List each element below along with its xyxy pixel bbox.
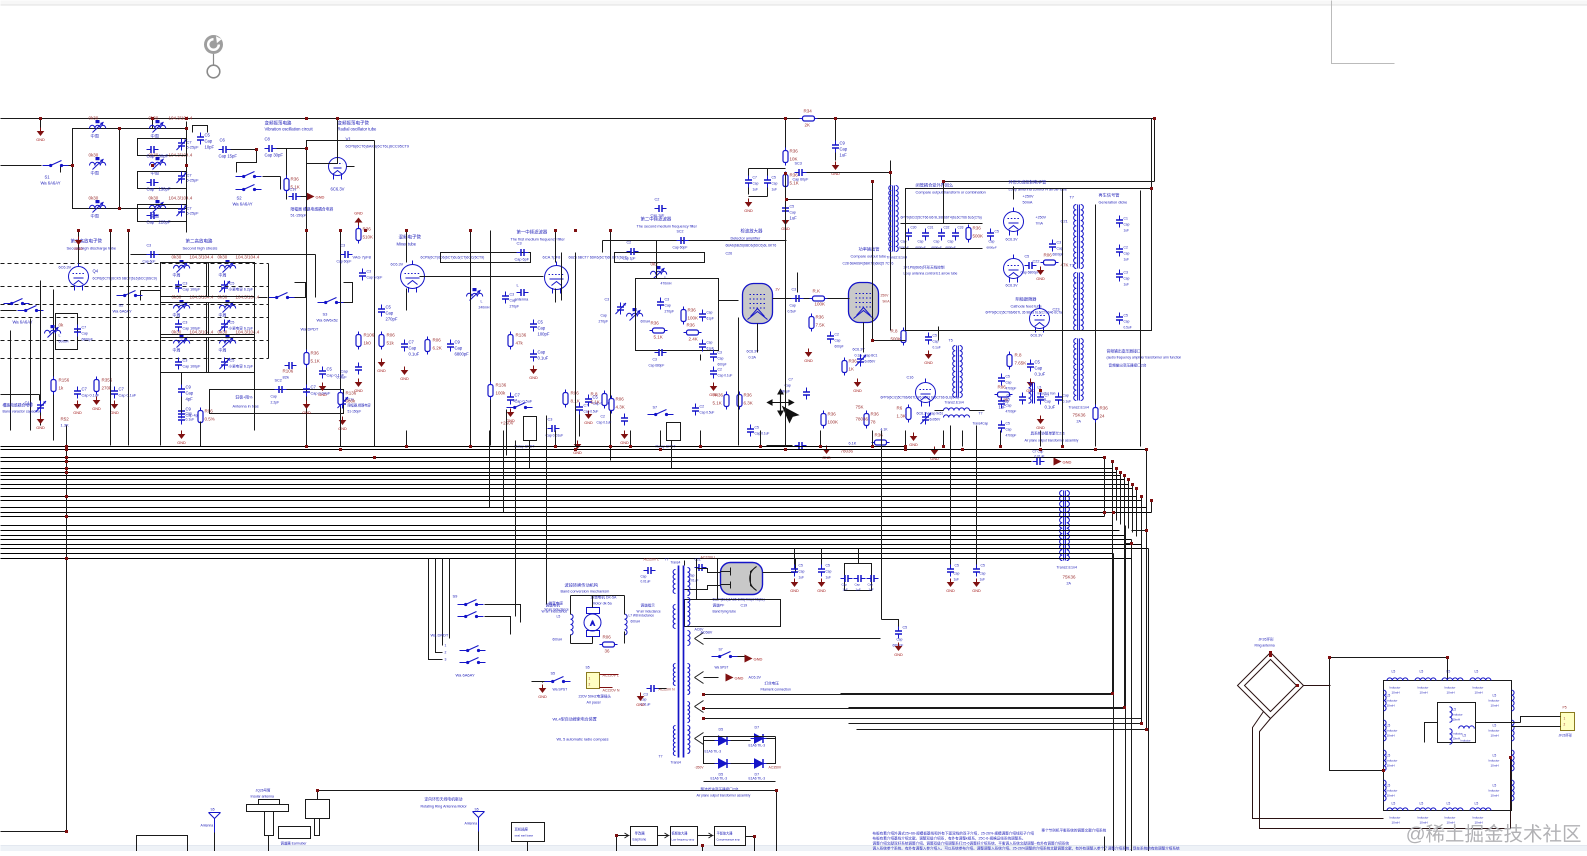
svg-text:GND: GND — [302, 411, 311, 415]
svg-text:100K: 100K — [828, 420, 839, 425]
svg-text:GND: GND — [1063, 460, 1072, 465]
svg-text:变频振荡电子管: 变频振荡电子管 — [338, 120, 370, 127]
junction — [405, 229, 408, 232]
ground — [745, 655, 763, 663]
svg-text:C2: C2 — [627, 241, 632, 245]
svg-text:104.3/104.4: 104.3/104.4 — [190, 255, 214, 260]
junction — [1145, 529, 1148, 532]
wire — [295, 283, 306, 298]
wire — [570, 635, 572, 644]
svg-text:AC6BV: AC6BV — [701, 631, 713, 635]
capacitor — [987, 229, 994, 241]
svg-text:GND: GND — [909, 443, 918, 447]
svg-text:GND: GND — [110, 411, 119, 415]
svg-text:51-150pF: 51-150pF — [348, 410, 362, 414]
svg-text:GND: GND — [1036, 277, 1045, 281]
adjustable inductor L9 — [651, 266, 667, 279]
svg-text:6C6.3V: 6C6.3V — [917, 412, 930, 416]
top toolbar strip — [1, 1, 1587, 5]
wire — [140, 291, 142, 301]
wire — [890, 161, 892, 173]
svg-text:Inductor: Inductor — [1390, 816, 1401, 820]
svg-text:GND: GND — [972, 589, 981, 593]
svg-text:Inductor: Inductor — [1418, 816, 1429, 820]
wire — [406, 289, 408, 311]
wire — [592, 637, 594, 644]
svg-text:GND: GND — [894, 653, 903, 657]
capacitor — [867, 575, 879, 582]
resistor — [995, 392, 1013, 397]
transformer T7 regen — [1074, 205, 1084, 269]
junction — [554, 229, 557, 232]
svg-text:WL 5 automatic radio compass: WL 5 automatic radio compass — [557, 738, 609, 742]
junction — [629, 445, 632, 448]
wire bus line 17 — [1, 530, 1120, 532]
svg-text:Cap: Cap — [409, 346, 417, 351]
svg-text:Cap: Cap — [271, 395, 277, 399]
svg-text:Cap 0.1uF: Cap 0.1uF — [82, 394, 100, 398]
svg-text:C7: C7 — [187, 206, 193, 211]
svg-text:10mH: 10mH — [1387, 794, 1395, 798]
svg-text:检波放大器: 检波放大器 — [741, 228, 764, 235]
svg-text:Cap: Cap — [855, 583, 861, 587]
svg-text:6800pF: 6800pF — [1053, 253, 1064, 257]
svg-text:S1: S1 — [45, 175, 51, 180]
wire heater feed — [849, 707, 1125, 709]
tube V4 first IF — [545, 262, 569, 294]
svg-text:Inductor: Inductor — [1453, 732, 1463, 736]
junction — [961, 448, 964, 451]
resistor — [966, 225, 971, 243]
svg-text:R06: R06 — [616, 397, 625, 402]
svg-text:GND: GND — [735, 676, 744, 681]
junction — [1061, 445, 1064, 448]
svg-text:Cap 9x51: Cap 9x51 — [930, 412, 944, 416]
svg-text:中周: 中周 — [173, 272, 181, 278]
wire — [763, 572, 796, 574]
wire — [786, 199, 873, 201]
resistor — [1041, 260, 1059, 265]
svg-text:75K36: 75K36 — [1073, 413, 1087, 418]
wire — [259, 297, 268, 299]
wire relay frame — [667, 423, 681, 441]
svg-text:600uH: 600uH — [59, 340, 70, 344]
capacitor C7b — [74, 387, 81, 399]
wire — [268, 264, 270, 359]
svg-text:AC220V L: AC220V L — [701, 556, 717, 560]
svg-text:10mH: 10mH — [1453, 718, 1460, 722]
svg-text:10mH: 10mH — [1491, 764, 1499, 768]
wire — [1521, 717, 1561, 723]
svg-text:0.1uF: 0.1uF — [538, 356, 549, 361]
resistor — [508, 332, 513, 350]
svg-text:Compare output tube: Compare output tube — [851, 255, 887, 259]
junction — [701, 844, 704, 847]
switch S1a — [43, 161, 69, 167]
svg-text:C7: C7 — [515, 393, 521, 398]
resistor — [864, 411, 869, 429]
svg-text:6C6.3V: 6C6.3V — [1006, 284, 1019, 288]
dashed gang line — [1, 358, 269, 360]
svg-text:1uF: 1uF — [840, 153, 848, 158]
capacitor — [854, 575, 866, 582]
wire drop — [575, 431, 577, 447]
svg-text:A: A — [590, 621, 595, 628]
svg-text:GND: GND — [36, 426, 45, 430]
capacitor — [998, 374, 1005, 386]
junction — [1094, 448, 1097, 451]
wire — [600, 674, 619, 676]
svg-text:P5: P5 — [1563, 706, 1567, 710]
svg-text:Cap: Cap — [753, 182, 759, 186]
junction — [316, 789, 319, 792]
resistor R37 — [783, 148, 788, 166]
svg-text:C6: C6 — [220, 138, 226, 143]
svg-text:5.1K: 5.1K — [713, 401, 722, 406]
switch S1b — [18, 306, 44, 312]
wire — [835, 153, 837, 161]
adjustable inductor L5 osc — [150, 157, 166, 170]
svg-text:Cap: Cap — [799, 570, 805, 574]
wire — [254, 263, 256, 431]
svg-text:Second high stresis: Second high stresis — [183, 246, 218, 251]
junction — [151, 164, 154, 167]
capacitor — [517, 249, 529, 256]
svg-text:AC350V: AC350V — [769, 766, 782, 770]
svg-text:Inductor Iron: Inductor Iron — [1038, 392, 1056, 396]
svg-text:C7: C7 — [187, 173, 193, 178]
wire — [1151, 119, 1153, 189]
svg-text:Trans2.E1n4: Trans2.E1n4 — [1069, 406, 1089, 410]
svg-text:C3: C3 — [653, 358, 657, 362]
svg-text:中周: 中周 — [151, 170, 159, 177]
svg-text:WL4型自动搜索电台装置: WL4型自动搜索电台装置 — [553, 716, 597, 722]
switch S12 — [712, 652, 738, 658]
junction — [65, 460, 68, 463]
svg-text:W arr inductance: W arr inductance — [637, 610, 661, 614]
junction — [554, 445, 557, 448]
wire — [347, 166, 355, 168]
wire bus line 6 — [1, 472, 1117, 474]
svg-text:1uF: 1uF — [980, 578, 986, 582]
svg-text:220pF: 220pF — [159, 220, 171, 225]
junction — [702, 707, 705, 710]
heater tap arrow — [695, 633, 704, 645]
svg-text:Wa 6A6AY: Wa 6A6AY — [456, 673, 475, 678]
svg-text:24: 24 — [1100, 414, 1106, 419]
ground — [709, 383, 718, 398]
wire — [280, 177, 282, 190]
svg-text:中周: 中周 — [173, 312, 181, 318]
svg-text:C5: C5 — [755, 426, 759, 430]
wire — [527, 842, 529, 852]
svg-text:C5: C5 — [933, 334, 937, 338]
svg-text:R106: R106 — [364, 333, 375, 338]
svg-text:0k30: 0k30 — [172, 330, 182, 335]
junction — [1103, 456, 1106, 459]
svg-text:GND: GND — [804, 359, 813, 363]
svg-text:L5: L5 — [1392, 802, 1396, 806]
wire B+ rail — [1, 118, 1155, 120]
wire — [901, 223, 983, 225]
antenna A2 — [473, 812, 485, 832]
wire — [703, 737, 705, 741]
svg-text:seal earl base: seal earl base — [515, 834, 534, 838]
diode D2 — [751, 734, 767, 743]
capacitor C3c — [792, 295, 804, 302]
svg-text:Cap: Cap — [147, 220, 155, 225]
svg-text:C16: C16 — [907, 376, 914, 380]
wire bus line 18 — [1, 535, 1126, 537]
svg-text:Cap 100pF: Cap 100pF — [183, 327, 202, 331]
wire — [200, 422, 202, 447]
junction — [65, 830, 68, 833]
svg-text:0.1uF: 0.1uF — [1063, 400, 1072, 404]
capacitor — [111, 387, 118, 399]
svg-text:1uF: 1uF — [1124, 258, 1130, 262]
svg-text:R136: R136 — [516, 333, 527, 338]
wire drop — [374, 431, 376, 447]
junction — [339, 229, 342, 232]
switch S2a — [236, 172, 262, 178]
capacitor C5 — [197, 133, 204, 145]
svg-text:GND: GND — [36, 138, 45, 142]
svg-text:Cap: Cap — [1035, 366, 1043, 371]
wire heater feed — [704, 694, 1113, 696]
svg-text:3: 3 — [445, 658, 447, 662]
svg-text:Cap: Cap — [772, 182, 778, 186]
wire — [767, 739, 776, 764]
svg-text:平衡放大器: 平衡放大器 — [717, 831, 734, 836]
wire drop — [1000, 431, 1002, 447]
junction — [1039, 448, 1042, 451]
junction — [305, 117, 308, 120]
power tube V5 detector amplifier — [743, 284, 773, 324]
svg-text:Radial oscillator tube: Radial oscillator tube — [338, 127, 378, 132]
svg-text:C1v: C1v — [290, 188, 297, 192]
svg-text:270pF: 270pF — [386, 317, 398, 322]
svg-text:Inductor: Inductor — [1390, 686, 1401, 690]
svg-text:Filament connection: Filament connection — [761, 688, 791, 692]
svg-text:Cap: Cap — [601, 314, 607, 318]
svg-text:6.1K: 6.1K — [849, 442, 857, 446]
trimmer capacitor — [616, 303, 627, 315]
capacitor — [285, 362, 297, 369]
junction — [185, 117, 188, 120]
svg-text:Cathode feed tube: Cathode feed tube — [1011, 305, 1042, 309]
svg-text:GND: GND — [754, 657, 763, 662]
junction — [373, 456, 376, 459]
svg-text:Cap: Cap — [147, 187, 155, 192]
svg-text:R36: R36 — [973, 226, 982, 231]
svg-text:5.1K: 5.1K — [311, 359, 320, 364]
svg-text:R36: R36 — [651, 321, 660, 326]
svg-text:GND: GND — [584, 421, 593, 425]
svg-text:Cap 0.1uF: Cap 0.1uF — [597, 421, 612, 425]
wire — [374, 231, 376, 446]
wire bus line 12 — [1, 500, 1142, 502]
wire drop deep — [503, 431, 505, 513]
junction — [305, 147, 308, 150]
svg-text:S2: S2 — [237, 196, 243, 201]
svg-text:Cap: Cap — [538, 326, 546, 331]
svg-text:1uF: 1uF — [790, 216, 798, 221]
panel corner frame — [1332, 1, 1395, 64]
resistor — [872, 440, 890, 445]
capacitor C42 — [818, 565, 825, 577]
svg-text:Inductor: Inductor — [1387, 759, 1398, 763]
svg-text:Cap 30pF: Cap 30pF — [265, 153, 284, 158]
wire — [193, 126, 208, 133]
wire bus line 14 — [1, 512, 1152, 514]
wire — [40, 119, 42, 128]
svg-text:78: 78 — [871, 420, 877, 425]
svg-text:0.1uF: 0.1uF — [1035, 372, 1046, 377]
svg-text:JQ26号筒: JQ26号筒 — [256, 788, 271, 793]
svg-text:第二高放电子管: 第二高放电子管 — [71, 238, 103, 245]
svg-text:10mH: 10mH — [1475, 691, 1483, 695]
capacitor C9 — [832, 141, 839, 153]
svg-text:Trans4: Trans4 — [671, 761, 682, 765]
wire drop — [529, 441, 531, 469]
svg-text:GND: GND — [338, 427, 347, 431]
svg-text:Cap: Cap — [1124, 320, 1130, 324]
wire — [1, 310, 17, 312]
svg-text:Cap 1pF: Cap 1pF — [651, 214, 666, 218]
junction — [118, 127, 121, 130]
wire — [561, 253, 563, 301]
svg-text:Inductor: Inductor — [1387, 729, 1398, 733]
capacitor — [764, 176, 771, 188]
svg-text:Cap 0.01uF: Cap 0.01uF — [546, 434, 564, 438]
capacitor — [319, 367, 326, 379]
svg-text:1uF: 1uF — [869, 588, 874, 592]
ground — [529, 366, 538, 381]
svg-text:L: L — [59, 334, 61, 338]
resistor R41 — [842, 358, 847, 376]
wire IF cell frame — [207, 263, 255, 297]
wire drop deep — [489, 431, 491, 508]
resistor — [681, 307, 686, 325]
resistor R39 — [810, 296, 828, 301]
svg-text:C3: C3 — [605, 298, 610, 302]
svg-text:5.1K: 5.1K — [591, 400, 600, 405]
svg-text:S5: S5 — [586, 666, 590, 670]
resistor — [821, 411, 826, 429]
svg-text:C3: C3 — [1057, 241, 1062, 245]
wire bus line 20 — [1, 544, 1142, 546]
tube V9 cathode follower — [1030, 305, 1050, 333]
ground — [584, 411, 593, 426]
svg-text:C7: C7 — [187, 140, 193, 145]
svg-text:Inductor: Inductor — [1387, 699, 1398, 703]
svg-text:小瓷电容 6.2pF: 小瓷电容 6.2pF — [229, 326, 254, 331]
resistor R36 — [284, 176, 289, 194]
wire bus line 2 — [1, 449, 1147, 451]
svg-text:Compensampe amp: Compensampe amp — [717, 838, 741, 842]
resistor — [901, 328, 906, 346]
junction — [109, 229, 112, 232]
wire heater feed — [841, 693, 1113, 695]
svg-text:Cap: Cap — [1057, 247, 1063, 251]
svg-text:C30: C30 — [911, 226, 917, 230]
transformer T11 primary 4 — [673, 726, 675, 756]
trimmer capacitor tuned — [220, 320, 231, 332]
svg-text:GND: GND — [790, 589, 799, 593]
wire — [1104, 837, 1106, 852]
capacitor — [1055, 393, 1062, 405]
resistor — [425, 337, 430, 355]
ground — [110, 401, 119, 416]
wire — [61, 165, 73, 167]
ground — [506, 409, 515, 424]
svg-text:10mH: 10mH — [1038, 398, 1047, 402]
tube V7 loop control — [1004, 208, 1024, 236]
arrow — [698, 833, 713, 838]
junction — [1296, 684, 1299, 687]
svg-text:C32: C32 — [944, 226, 950, 230]
svg-text:C2: C2 — [835, 333, 839, 337]
junction — [39, 117, 42, 120]
diode D3 — [715, 759, 731, 768]
svg-text:1uF: 1uF — [843, 588, 848, 592]
wire — [263, 176, 281, 178]
ground — [636, 693, 645, 708]
svg-text:7K36: 7K36 — [713, 393, 724, 398]
junction — [469, 445, 472, 448]
inductor L5 choke — [1029, 383, 1035, 404]
svg-text:600pF: 600pF — [835, 345, 844, 349]
wire — [872, 182, 874, 341]
svg-text:GND: GND — [744, 209, 753, 213]
adjustable inductor IF — [174, 335, 190, 348]
svg-text:270pF: 270pF — [599, 320, 609, 324]
dashed gang line — [1, 286, 269, 288]
inductor L7 left — [571, 614, 574, 635]
svg-text:C2: C2 — [1124, 246, 1128, 250]
svg-text:600uH: 600uH — [641, 320, 651, 324]
junction — [942, 180, 945, 183]
wire bus drop — [1148, 549, 1150, 852]
wire bus drop — [1131, 540, 1133, 852]
wire — [795, 558, 822, 560]
svg-text:6CP6(6CT6)6CK5 6BC7(6L6)6CC(6S: 6CP6(6CT6)6CK5 6BC7(6L6)6CC(6SC9) — [93, 277, 157, 281]
wire bus drop — [1125, 526, 1127, 852]
junction — [904, 448, 907, 451]
wire — [318, 791, 777, 852]
switch S7 — [507, 403, 533, 409]
ground — [909, 433, 918, 448]
inductor L20 top — [1387, 678, 1408, 681]
wire — [881, 431, 883, 620]
wire drop — [610, 431, 612, 447]
cursor — [768, 390, 799, 423]
svg-text:L5: L5 — [1392, 670, 1396, 674]
wire — [873, 340, 906, 342]
svg-text:Inductor: Inductor — [1453, 713, 1463, 717]
svg-text:中周: 中周 — [219, 347, 227, 353]
wire — [624, 596, 626, 615]
svg-text:Trans2.E1n4: Trans2.E1n4 — [1057, 566, 1077, 570]
svg-text:C26: C26 — [726, 252, 733, 256]
svg-text:6C6.3V: 6C6.3V — [1031, 334, 1044, 338]
svg-text:5-25pF: 5-25pF — [187, 212, 200, 216]
wire — [470, 231, 472, 446]
ground — [894, 643, 903, 658]
svg-text:6C6.3V: 6C6.3V — [331, 187, 345, 192]
wire bus drop — [1120, 473, 1122, 525]
bottom status strip — [1, 846, 1587, 852]
